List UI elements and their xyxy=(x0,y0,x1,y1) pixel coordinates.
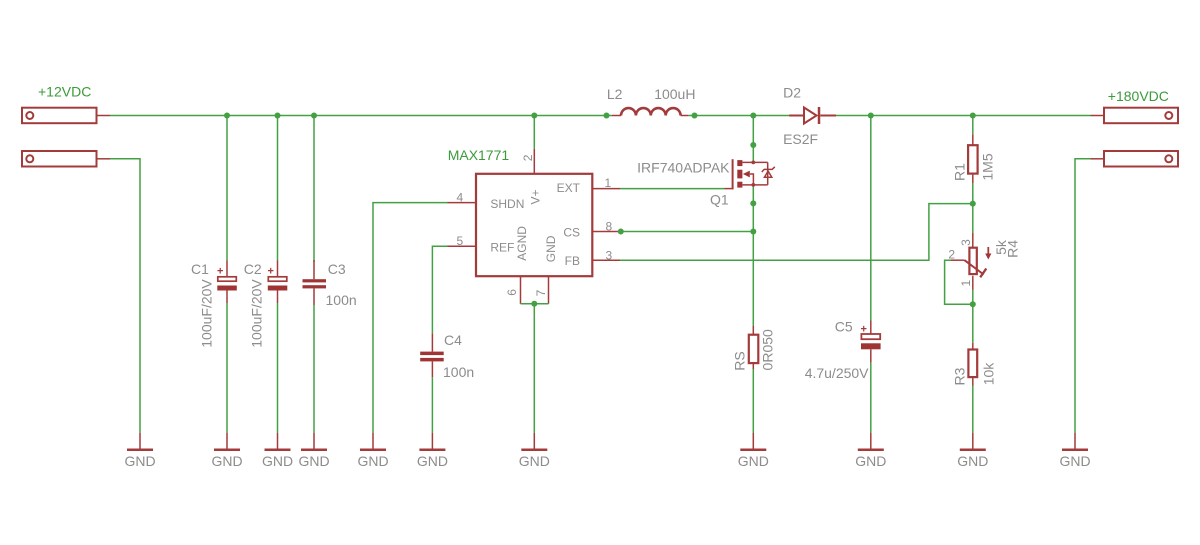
svg-text:100uH: 100uH xyxy=(654,86,695,102)
svg-text:GND: GND xyxy=(519,453,550,469)
wire bus to C5 xyxy=(870,116,872,321)
svg-text:R1: R1 xyxy=(951,163,967,181)
connector X2 pin 1 xyxy=(1091,108,1179,124)
svg-text:100uF/20V: 100uF/20V xyxy=(249,279,265,348)
svg-text:6: 6 xyxy=(505,289,519,296)
ground symbol 10 xyxy=(960,433,986,450)
svg-text:GND: GND xyxy=(417,453,448,469)
wire C5 to ground xyxy=(870,363,872,433)
node B junction xyxy=(970,301,976,307)
connector X2 pin 2 xyxy=(1091,151,1179,167)
svg-text:3: 3 xyxy=(959,239,973,246)
junction bus R1 xyxy=(970,113,976,119)
svg-text:5: 5 xyxy=(457,234,464,248)
pin 2 V+ stub xyxy=(533,149,535,174)
wire node B to R3 xyxy=(972,304,974,342)
wire R4 wiper to node B xyxy=(945,260,973,304)
capacitor C4 xyxy=(420,333,444,377)
wire FB to divider xyxy=(620,204,971,261)
svg-text:GND: GND xyxy=(957,453,988,469)
svg-text:V+: V+ xyxy=(528,189,542,204)
wire RS to ground xyxy=(752,369,754,433)
svg-text:SHDN: SHDN xyxy=(490,197,524,211)
wire bus to C1 xyxy=(226,116,228,261)
svg-text:L2: L2 xyxy=(607,86,623,102)
svg-text:1: 1 xyxy=(605,176,612,190)
svg-text:GND: GND xyxy=(544,235,558,262)
wire bus to Q1 drain xyxy=(752,116,754,162)
svg-text:4: 4 xyxy=(457,190,464,204)
svg-text:7: 7 xyxy=(534,289,548,296)
pin 6 stub xyxy=(520,276,522,304)
svg-text:100uF/20V: 100uF/20V xyxy=(199,279,215,348)
svg-text:EXT: EXT xyxy=(557,181,581,195)
ground symbol 5 xyxy=(360,433,386,450)
wire bus to R1 xyxy=(972,116,974,134)
svg-text:+: + xyxy=(268,266,274,278)
wire R1 to node A xyxy=(972,183,974,203)
junction CS pin 8 xyxy=(618,229,624,235)
wire C4 to ground xyxy=(431,377,433,433)
svg-text:100n: 100n xyxy=(326,292,357,308)
junction bus L2 right xyxy=(692,113,698,119)
wire L2 to D2 anode xyxy=(688,115,789,117)
junction drain wire xyxy=(750,142,756,148)
wire CS to Q1 source xyxy=(620,231,753,233)
wire pins 6-7 join xyxy=(521,303,549,305)
junction IC ground xyxy=(531,301,537,307)
svg-text:MAX1771: MAX1771 xyxy=(448,147,510,163)
svg-text:C2: C2 xyxy=(244,261,262,277)
resistor R3 xyxy=(968,343,977,386)
svg-text:2: 2 xyxy=(521,154,535,161)
svg-text:ES2F: ES2F xyxy=(783,131,818,147)
svg-text:Q1: Q1 xyxy=(710,192,729,208)
svg-text:C5: C5 xyxy=(835,319,853,335)
ground symbol 6 xyxy=(419,433,445,450)
svg-text:1: 1 xyxy=(959,279,973,286)
svg-text:+12VDC: +12VDC xyxy=(38,84,91,100)
junction bus V+ pin 2 xyxy=(531,113,537,119)
wire R4 pin 1 to node B xyxy=(972,290,974,304)
svg-text:4.7u/250V: 4.7u/250V xyxy=(805,365,869,381)
node A junction xyxy=(970,201,976,207)
junction bus Q1 drain xyxy=(750,113,756,119)
junction bus C5 xyxy=(868,113,874,119)
svg-text:R4: R4 xyxy=(1005,240,1021,258)
capacitor C1 xyxy=(217,261,237,304)
svg-text:GND: GND xyxy=(124,453,155,469)
ground symbol 3 xyxy=(265,433,291,450)
wire SHDN to ground xyxy=(373,203,448,433)
svg-text:D2: D2 xyxy=(783,85,801,101)
pin 8 CS stub xyxy=(592,231,620,233)
capacitor C3 xyxy=(303,260,327,305)
inductor L2 xyxy=(612,108,688,115)
wire Q1 source to RS xyxy=(752,185,754,326)
capacitor C2 xyxy=(268,261,288,304)
wire C2 to ground xyxy=(277,303,279,433)
svg-text:GND: GND xyxy=(855,453,886,469)
op-amp U1 MAX1771 body xyxy=(476,174,592,276)
ground symbol 8 xyxy=(740,433,766,450)
svg-text:0R050: 0R050 xyxy=(760,329,776,370)
pin 1 EXT stub xyxy=(592,188,620,190)
junction bus L2 left xyxy=(604,113,610,119)
svg-text:GND: GND xyxy=(1059,453,1090,469)
wire bus to C3 xyxy=(313,116,315,262)
pin 4 SHDN stub xyxy=(448,202,477,204)
junction source wire xyxy=(750,200,756,206)
wire D2 cathode to +180V connector xyxy=(836,115,1091,117)
svg-text:GND: GND xyxy=(298,453,329,469)
pin 7 stub xyxy=(548,276,550,304)
svg-text:GND: GND xyxy=(738,453,769,469)
junction bus C3 xyxy=(311,113,317,119)
wire R3 to ground xyxy=(972,386,974,434)
svg-text:CS: CS xyxy=(563,226,580,240)
ground symbol 4 xyxy=(301,433,327,450)
pin 5 REF stub xyxy=(448,245,477,247)
svg-text:GND: GND xyxy=(262,453,293,469)
svg-text:1M5: 1M5 xyxy=(980,153,996,180)
svg-text:GND: GND xyxy=(211,453,242,469)
svg-text:RS: RS xyxy=(732,351,748,370)
svg-text:100n: 100n xyxy=(443,364,474,380)
pin 3 FB stub xyxy=(592,259,620,261)
connector X1 pin 1 xyxy=(22,108,110,124)
resistor RS xyxy=(749,326,759,369)
svg-text:10k: 10k xyxy=(980,362,996,386)
wire bus to pin 2 xyxy=(533,116,535,149)
svg-text:8: 8 xyxy=(606,220,613,234)
wire EXT to Q1 gate xyxy=(620,188,725,190)
svg-text:IRF740ADPAK: IRF740ADPAK xyxy=(637,160,730,176)
wire X2 pin 2 to ground xyxy=(1075,159,1091,433)
svg-text:AGND: AGND xyxy=(515,226,529,261)
junction bus C2 xyxy=(275,113,281,119)
ground symbol 9 xyxy=(858,433,884,450)
svg-text:GND: GND xyxy=(357,453,388,469)
junction bus C1 xyxy=(224,113,230,119)
potentiometer R4 xyxy=(951,233,991,290)
svg-text:+180VDC: +180VDC xyxy=(1108,88,1169,104)
svg-text:2: 2 xyxy=(948,248,955,262)
wire +12V bus to L2 xyxy=(110,115,612,117)
wire node A to R4 pin 3 xyxy=(972,204,974,233)
wire bus to C2 xyxy=(277,116,279,261)
wire C3 to ground xyxy=(313,305,315,433)
wire REF to C4 xyxy=(432,246,447,333)
ground symbol 7 xyxy=(521,433,547,450)
wire X1 pin 2 to ground xyxy=(110,159,140,433)
resistor R1 xyxy=(968,134,978,183)
ground symbol 11 xyxy=(1062,433,1088,450)
diode D2 xyxy=(789,107,836,124)
svg-text:+: + xyxy=(217,266,223,278)
junction CS source column xyxy=(750,229,756,235)
ground symbol 2 xyxy=(214,433,240,450)
wire IC ground down xyxy=(533,304,535,433)
capacitor C5 xyxy=(861,321,881,363)
wire C1 to ground xyxy=(226,303,228,433)
svg-text:C1: C1 xyxy=(191,261,209,277)
svg-text:+: + xyxy=(861,324,867,336)
ground symbol 1 xyxy=(127,433,153,450)
svg-text:3: 3 xyxy=(606,249,613,263)
svg-text:R3: R3 xyxy=(952,367,968,385)
svg-text:C4: C4 xyxy=(444,332,462,348)
transistor Q1 xyxy=(725,159,775,189)
svg-text:FB: FB xyxy=(565,254,580,268)
svg-text:REF: REF xyxy=(490,241,514,255)
svg-text:C3: C3 xyxy=(328,261,346,277)
connector X1 pin 2 xyxy=(22,151,110,167)
